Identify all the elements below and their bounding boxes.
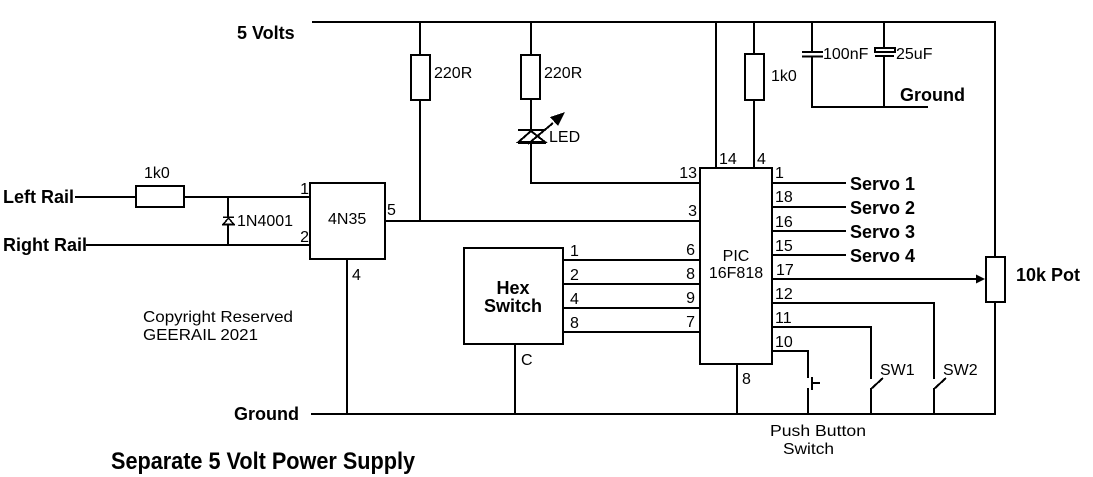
- resistor R4 1k0 horizontal: [136, 186, 184, 207]
- wire C2 bottom: [883, 56, 885, 108]
- svg-text:Hex: Hex: [496, 278, 529, 298]
- svg-text:7: 7: [686, 314, 695, 331]
- svg-text:1: 1: [775, 165, 784, 182]
- svg-text:17: 17: [776, 262, 794, 279]
- wire right rail upper: [994, 21, 996, 258]
- wire PIC pin10 horizontal: [772, 350, 808, 352]
- svg-text:1k0: 1k0: [771, 68, 797, 85]
- svg-text:2: 2: [300, 229, 309, 246]
- svg-text:2: 2: [570, 267, 579, 284]
- svg-text:Ground: Ground: [234, 404, 299, 424]
- svg-text:Push Button: Push Button: [770, 423, 866, 440]
- wire R4 to 4N35 pin1: [184, 196, 310, 198]
- wire R3 top: [753, 22, 755, 54]
- svg-text:4: 4: [757, 151, 766, 168]
- svg-text:10: 10: [775, 334, 793, 351]
- push button actuator dash: [813, 382, 820, 384]
- wire PIC pin16 to Servo 3: [772, 230, 846, 232]
- wire cap ground bus: [812, 106, 928, 108]
- wire PIC pin18 to Servo 2: [772, 206, 846, 208]
- svg-text:1N4001: 1N4001: [237, 213, 293, 230]
- wire C2 top: [883, 22, 885, 48]
- wire hex pin1 to PIC pin6: [563, 259, 700, 261]
- svg-text:14: 14: [719, 151, 737, 168]
- svg-text:13: 13: [679, 165, 697, 182]
- wire R3 to PIC pin4: [753, 100, 755, 168]
- wire diode lower: [227, 225, 229, 245]
- capacitor C1 100nF plates: [802, 52, 823, 57]
- wire 4N35 pin5 to PIC pin3: [385, 220, 700, 222]
- wire SW1 lower: [870, 388, 872, 414]
- svg-text:5: 5: [387, 202, 396, 219]
- wire PIC pin14: [715, 22, 717, 168]
- svg-text:Left Rail: Left Rail: [3, 187, 74, 207]
- svg-text:12: 12: [775, 286, 793, 303]
- svg-text:4: 4: [352, 267, 361, 284]
- wire right rail lower: [994, 301, 996, 415]
- wire push button upper: [807, 350, 809, 378]
- wire R1 bottom to pin5 net: [419, 100, 421, 221]
- switch SW2 blade: [934, 378, 946, 389]
- wire LED to PIC pin13: [530, 182, 700, 184]
- svg-text:Servo 4: Servo 4: [850, 246, 915, 266]
- svg-text:220R: 220R: [544, 65, 582, 82]
- wire diode upper: [227, 197, 229, 217]
- wire SW2 upper: [933, 302, 935, 379]
- svg-text:1k0: 1k0: [144, 165, 170, 182]
- svg-text:9: 9: [686, 290, 695, 307]
- hex switch S1 box: [464, 248, 563, 344]
- svg-text:11: 11: [775, 310, 792, 327]
- IC U1 PIC 16F818 box: [700, 168, 772, 364]
- svg-text:18: 18: [775, 189, 793, 206]
- svg-text:Switch: Switch: [783, 441, 834, 458]
- svg-text:6: 6: [686, 242, 695, 259]
- svg-text:4: 4: [570, 291, 579, 308]
- switch SW1 blade: [871, 378, 883, 389]
- wire PIC pin11 horizontal: [772, 326, 871, 328]
- wire push button lower: [807, 388, 809, 414]
- push button contact bar: [811, 377, 813, 390]
- svg-text:4N35: 4N35: [328, 211, 366, 228]
- diode D1 1N4001: [222, 217, 235, 225]
- svg-text:8: 8: [686, 266, 695, 283]
- wire C1 top: [811, 22, 813, 52]
- svg-text:Servo 1: Servo 1: [850, 174, 915, 194]
- wire 4N35 pin4 to ground: [346, 259, 348, 414]
- svg-text:GEERAIL 2021: GEERAIL 2021: [143, 327, 258, 344]
- svg-text:10k Pot: 10k Pot: [1016, 265, 1080, 285]
- resistor R3 1k0: [745, 54, 764, 100]
- wire hex common C to ground: [514, 344, 516, 414]
- svg-text:SW2: SW2: [943, 362, 978, 379]
- resistor R1 220R: [411, 55, 430, 100]
- resistor R2 220R: [521, 55, 540, 99]
- svg-text:Ground: Ground: [900, 85, 965, 105]
- wire hex pin2 to PIC pin8: [563, 283, 700, 285]
- wire left rail to R4: [75, 196, 136, 198]
- svg-text:1: 1: [300, 181, 309, 198]
- wire PIC pin15 to Servo 4: [772, 254, 846, 256]
- wire R2 to LED: [530, 99, 532, 130]
- svg-text:Right Rail: Right Rail: [3, 235, 87, 255]
- opto-coupler U2 4N35 box: [310, 183, 385, 259]
- svg-text:16F818: 16F818: [709, 265, 763, 282]
- svg-text:Switch: Switch: [484, 296, 542, 316]
- wire C1 bottom: [811, 56, 813, 108]
- svg-text:220R: 220R: [434, 65, 472, 82]
- LED arrow head: [550, 112, 565, 126]
- potentiometer VR1 box: [986, 257, 1005, 302]
- svg-text:15: 15: [775, 238, 793, 255]
- wire PIC pin12 horizontal: [772, 302, 934, 304]
- capacitor C2 25uF plates: [875, 48, 895, 56]
- svg-text:1: 1: [570, 243, 579, 260]
- wire PIC pin17 to pot wiper: [772, 278, 979, 280]
- svg-text:LED: LED: [549, 129, 580, 146]
- svg-text:8: 8: [570, 315, 579, 332]
- wire hex pin8 to PIC pin7: [563, 331, 700, 333]
- svg-text:3: 3: [688, 203, 697, 220]
- pot wiper arrow head: [976, 275, 985, 284]
- wire R2 top: [530, 22, 532, 55]
- wire SW1 upper: [870, 326, 872, 379]
- svg-text:8: 8: [742, 371, 751, 388]
- svg-text:Separate 5 Volt Power Supply: Separate 5 Volt Power Supply: [111, 448, 416, 475]
- wire SW2 lower: [933, 388, 935, 414]
- wire ground rail: [311, 413, 996, 415]
- wire LED down: [530, 143, 532, 184]
- wire 5V top rail: [312, 21, 996, 23]
- svg-text:C: C: [521, 352, 533, 369]
- wire hex pin4 to PIC pin9: [563, 307, 700, 309]
- LED D2: [518, 123, 553, 144]
- wire right rail to 4N35 pin2: [86, 244, 310, 246]
- svg-text:Servo 2: Servo 2: [850, 198, 915, 218]
- wire PIC pin8 bottom to ground: [736, 364, 738, 414]
- svg-text:PIC: PIC: [723, 248, 750, 265]
- svg-text:Servo 3: Servo 3: [850, 222, 915, 242]
- svg-text:25uF: 25uF: [896, 46, 933, 63]
- svg-text:SW1: SW1: [880, 362, 915, 379]
- wire R1 top: [419, 22, 421, 55]
- svg-text:5 Volts: 5 Volts: [237, 23, 295, 43]
- svg-text:16: 16: [775, 214, 793, 231]
- wire PIC pin1 to Servo 1: [772, 182, 846, 184]
- svg-text:100nF: 100nF: [823, 46, 869, 63]
- svg-text:Copyright Reserved: Copyright Reserved: [143, 309, 293, 326]
